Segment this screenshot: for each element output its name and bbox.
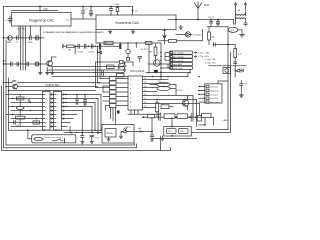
left bus line3	[8, 78, 10, 130]
netlabel box row1	[170, 51, 193, 54]
node y132.6	[82, 132, 84, 134]
ground crystal	[239, 35, 244, 37]
DD2 left pins	[199, 87, 205, 103]
connector box XS1	[43, 92, 51, 131]
chain capacitor Cx2	[191, 113, 193, 121]
arrows out XS2	[63, 94, 65, 119]
connector box XS2	[54, 92, 62, 131]
small box mid y62	[120, 60, 124, 63]
capacitor decoupling MCU	[123, 63, 126, 71]
cap hang a	[75, 95, 78, 105]
DD2 top wire	[218, 81, 228, 84]
wire mid verticals	[95, 30, 97, 44]
transistor VT4	[182, 100, 188, 106]
capacitor C12 inline	[214, 43, 216, 46]
ground quartz b	[119, 132, 122, 139]
node amp top	[132, 10, 134, 12]
svg-text:+12 В: +12 В	[176, 90, 182, 92]
node decap	[124, 62, 126, 64]
box G outer	[102, 125, 134, 144]
long row y86.5	[6, 86, 98, 88]
wire row y64 right	[148, 63, 161, 65]
switch SA2	[53, 139, 63, 141]
pin row arrows XS1-XS2	[51, 94, 52, 127]
node top bus junction x40	[39, 6, 41, 8]
svg-text:конт. АКБ: конт. АКБ	[173, 63, 183, 66]
compute box	[32, 135, 76, 143]
capacitor C6	[209, 20, 212, 27]
inner frame right P2	[191, 52, 230, 133]
bar in compute box	[64, 139, 66, 142]
ground under DA2	[109, 30, 112, 34]
svg-text:C4R2: C4R2	[27, 42, 33, 44]
ladder in wires left	[96, 79, 110, 106]
ground polarized cap	[81, 142, 84, 144]
svg-text:инд. заряд: инд. заряд	[173, 60, 184, 62]
wire crystal row	[207, 26, 228, 28]
wire x149 drop	[148, 44, 150, 72]
transformer T1 arrows	[235, 3, 247, 5]
ground mid bottom	[161, 136, 164, 141]
node rows left	[3, 82, 5, 84]
pin ticks XS2 inner	[54, 95, 56, 127]
node x161 upper dots	[160, 52, 162, 54]
pin numbers XS2	[57, 94, 58, 128]
bottom chain wire	[142, 117, 214, 125]
svg-text:к АКБ: к АКБ	[222, 119, 228, 122]
wire row1	[4, 37, 45, 39]
svg-text:Расчетная часть Т: Расчетная часть Т	[45, 137, 64, 139]
node antenna	[197, 19, 199, 21]
wire VT4	[187, 96, 189, 111]
transformer T1 right lead	[245, 5, 247, 15]
resistor R1 mid	[67, 45, 74, 48]
dash-dot divider	[209, 65, 247, 67]
svg-text:Усилитель DA2: Усилитель DA2	[115, 21, 139, 25]
svg-text:упр. прием: упр. прием	[173, 57, 184, 59]
netlabel box row3	[170, 59, 193, 62]
nodes DD3 left	[171, 126, 173, 128]
capacitor C16 right	[240, 81, 243, 96]
netlabel box row4	[170, 62, 193, 65]
wire bus row B	[47, 69, 124, 71]
transformer T2 oval b	[157, 86, 170, 90]
ground row2 c	[51, 67, 54, 75]
LED HL1	[121, 130, 128, 133]
svg-text:0,7 В; 7,4В: 0,7 В; 7,4В	[198, 52, 209, 54]
wire y44.5 right	[228, 44, 235, 46]
diode VD4	[235, 69, 243, 72]
svg-text:0,5 дБ; 7,4В: 0,5 дБ; 7,4В	[205, 59, 216, 61]
node bus dots	[95, 72, 97, 74]
svg-text:0,7 В; 7кГц: 0,7 В; 7кГц	[198, 56, 210, 58]
capacitor mid a	[78, 44, 79, 48]
resistor small under C17	[126, 58, 129, 61]
chain resistor Rx1	[148, 114, 155, 118]
resistor on row 122	[33, 121, 40, 124]
svg-text:C8 R12: C8 R12	[141, 49, 149, 51]
pin ticks XS1 inner	[43, 95, 45, 127]
node mid a	[75, 46, 77, 48]
svg-text:7: 7	[46, 118, 47, 120]
wire right winding down	[244, 19, 247, 26]
left rows into XS1	[6, 95, 43, 127]
svg-text:3: 3	[57, 102, 58, 104]
svg-text:C8 R4: C8 R4	[77, 52, 84, 54]
ground DA2 b	[131, 30, 134, 34]
wire mid vertical x75	[74, 46, 76, 54]
resistor R2 on top bus	[117, 7, 119, 16]
node C4	[110, 6, 112, 8]
wire row2	[4, 63, 48, 65]
DD3 sub element b	[179, 129, 189, 134]
svg-text:1: 1	[57, 94, 58, 96]
wire second rail	[12, 10, 59, 12]
wire DA1 to DA2	[71, 18, 96, 20]
transformer T1 winding b	[236, 18, 246, 19]
wire DA2 out dashed	[168, 19, 176, 21]
long row y82.5	[4, 82, 101, 84]
wire lower link	[152, 138, 197, 140]
wire x152 vertical	[151, 117, 153, 135]
box G inner quartz	[105, 129, 116, 138]
DD2 pin square 4	[206, 97, 209, 99]
svg-text:Модулятор DA1: Модулятор DA1	[29, 19, 54, 23]
wire x40 down	[39, 38, 41, 73]
node R2	[117, 6, 119, 8]
bar cap dark	[154, 70, 158, 73]
capacitor C5a row1	[30, 36, 32, 40]
resistor above ladder	[117, 74, 125, 77]
node C6	[210, 19, 212, 21]
svg-text:прием/пд: прием/пд	[210, 90, 219, 92]
MCU DD1 box	[128, 76, 143, 110]
node C3 top	[90, 6, 92, 8]
capacitor C15 mid	[99, 44, 100, 49]
capacitor mid c	[92, 44, 93, 48]
resistor on row A	[107, 65, 115, 68]
wire under MCU	[128, 110, 161, 114]
capacitor C2 plates	[81, 11, 84, 13]
compute oval resistor	[34, 138, 43, 141]
node d205	[204, 124, 206, 126]
ground zener	[90, 141, 93, 143]
wire x70 drop	[69, 127, 71, 133]
ground quartz a	[107, 137, 110, 141]
stack wires	[19, 95, 21, 127]
svg-text:упр. перед.: упр. перед.	[173, 53, 184, 55]
wire T2	[150, 85, 176, 96]
svg-text:4,7к: 4,7к	[238, 54, 242, 56]
optocoupler U2	[223, 68, 231, 74]
node DA2 out	[175, 19, 177, 21]
svg-text:вых. НЧ: вых. НЧ	[17, 28, 25, 30]
arrow into G	[97, 132, 99, 133]
svg-text:C6 C7: C6 C7	[208, 17, 215, 19]
zener VD6	[90, 135, 94, 141]
electrolytic cap C17	[126, 49, 131, 54]
svg-text:2: 2	[46, 98, 47, 100]
polarized cap C14 row2	[35, 62, 37, 66]
wire rows to netlabels	[161, 53, 170, 68]
svg-text:6: 6	[57, 114, 58, 116]
resistor R7 mid box	[104, 41, 113, 44]
stub DA1 bottom x19	[18, 26, 20, 36]
stack resistor Ra	[16, 97, 24, 100]
speaker BA1	[185, 32, 190, 37]
capacitor C18	[138, 57, 142, 63]
node out XS2 dots	[65, 94, 66, 95]
resistor box on y43 b	[146, 41, 153, 44]
svg-text:1: 1	[46, 94, 47, 96]
transformer T1 left lead	[235, 5, 237, 15]
resistor R6v vertical mid	[155, 44, 157, 47]
svg-text:Кв.ген: Кв.ген	[106, 133, 113, 135]
crystal ZQ1 oval	[228, 27, 238, 32]
wire x136 down	[135, 43, 137, 48]
resistor Rv dd2	[197, 115, 201, 121]
ground C16	[239, 95, 243, 97]
node row2 x40	[39, 63, 41, 65]
svg-text:M1: M1	[13, 79, 17, 83]
DD2 pin square 2	[206, 89, 209, 91]
svg-text:тон1 (1к): тон1 (1к)	[210, 94, 218, 96]
wire top bus	[4, 6, 133, 8]
MCU right pins	[143, 80, 200, 108]
capacitor C1 row1	[17, 36, 19, 40]
svg-text:тон2 (2к): тон2 (2к)	[210, 98, 218, 100]
DD3 sub element a	[167, 129, 177, 134]
rows out XS2	[62, 95, 102, 127]
antenna WA1	[194, 2, 202, 20]
DD2 pin square 3	[206, 93, 209, 95]
tantalum cap filled	[117, 111, 120, 114]
node y43 x120	[120, 42, 122, 44]
polarized cap x164	[163, 29, 167, 44]
node row1 x40	[39, 37, 41, 39]
pin numbers XS1	[46, 94, 47, 128]
diode VD1 small	[98, 51, 102, 53]
vertical drops to bottom right	[193, 96, 205, 127]
wire ladder tails	[111, 108, 116, 125]
capacitor cluster mid	[102, 71, 104, 76]
node C16	[240, 94, 242, 96]
node C7	[217, 19, 219, 21]
node grid dots a	[12, 98, 13, 99]
svg-text:WA1: WA1	[204, 3, 210, 7]
node mid c	[95, 46, 97, 48]
svg-text:общ. пров.: общ. пров.	[173, 68, 184, 70]
node verticals crossings	[20, 37, 21, 38]
capacitor C3 plates	[89, 11, 92, 13]
svg-text:8: 8	[57, 122, 58, 124]
chain resistor Rx2	[164, 114, 175, 119]
svg-text:5: 5	[57, 110, 58, 112]
DD2 pin nodes	[199, 86, 201, 88]
svg-text:2: 2	[57, 98, 58, 100]
wire right col down	[228, 45, 235, 130]
node x152	[151, 131, 153, 133]
stack oval Da	[16, 106, 24, 109]
node cap hang	[76, 94, 77, 95]
stack resistor Rb	[16, 116, 25, 119]
wire transformer bottom	[234, 16, 236, 25]
microphone BM1	[8, 36, 13, 41]
capacitor on row A	[118, 65, 120, 69]
wire into compute box	[28, 130, 32, 139]
node C17 top	[127, 42, 129, 44]
svg-text:BM1: BM1	[7, 42, 12, 44]
wire drop to amp box	[132, 7, 134, 16]
svg-text:4: 4	[57, 106, 58, 108]
wire x228 down	[227, 27, 229, 45]
resistor R9 vertical	[234, 45, 236, 49]
wire mid y62	[96, 62, 133, 66]
svg-text:C4 R2: C4 R2	[113, 4, 120, 6]
wire x160 down	[160, 136, 162, 151]
resistor Rh horizontal	[161, 105, 169, 109]
ground C3	[89, 14, 92, 16]
capacitor C9a row2	[27, 62, 29, 66]
node y43 x136	[136, 42, 138, 44]
capacitor C2 stub	[82, 7, 84, 20]
chain resistor Rx3	[177, 114, 188, 119]
wire G right exit	[128, 131, 152, 133]
transistor VT1	[47, 61, 53, 67]
wire bus row D	[52, 73, 188, 77]
DD2 pin square 5	[206, 101, 209, 103]
polarized cap left edge	[8, 16, 12, 23]
bundle verticals up	[96, 43, 110, 110]
left bus line2	[6, 40, 135, 145]
svg-text:9: 9	[46, 126, 47, 128]
wire mid row y46.3	[64, 45, 121, 47]
ground VD4	[242, 69, 243, 73]
wire speaker	[176, 34, 192, 36]
svg-text:C9 R6: C9 R6	[88, 52, 95, 54]
svg-text:9: 9	[57, 126, 58, 128]
ground row2 a	[39, 73, 42, 75]
node row2 left	[3, 63, 5, 65]
box modulator DA1	[12, 13, 72, 27]
DD2 pin square 1	[206, 85, 209, 87]
wire verticals box A to rows	[21, 26, 26, 70]
ladder out wires right	[116, 79, 128, 106]
arrow G exit	[140, 131, 142, 132]
netlabel pin squares	[170, 52, 172, 54]
capacitor C13	[234, 62, 237, 68]
node C2 top	[82, 6, 84, 8]
battery plate mid row	[62, 45, 64, 48]
svg-text:телефон: телефон	[193, 34, 201, 37]
svg-text:общ. пров.: общ. пров.	[210, 102, 220, 104]
node row A x122	[122, 66, 124, 68]
capacitor C7	[216, 20, 219, 26]
wire row y130	[9, 129, 102, 131]
wire row y44.5	[213, 44, 228, 46]
resistor R8 vertical	[208, 27, 210, 32]
inner frame right P1	[197, 129, 229, 131]
resistor box on y40.8	[169, 40, 177, 43]
arrow annots right of netlabels	[195, 52, 197, 57]
svg-text:7: 7	[57, 118, 58, 120]
left bus line4	[2, 86, 171, 151]
transistor VT2	[13, 84, 18, 89]
svg-text:юл В: юл В	[95, 138, 100, 140]
netlabel box row2	[170, 55, 193, 58]
chain capacitor Cx1	[159, 113, 161, 120]
svg-text:ATtiny2313: ATtiny2313	[130, 69, 145, 73]
svg-text:5: 5	[46, 110, 47, 112]
LED arrows	[124, 128, 127, 130]
transformer T1 winding a	[236, 14, 246, 16]
capacitor stack bottom	[14, 121, 16, 125]
wire top mid rail y43	[96, 42, 161, 44]
ground above speaker	[179, 26, 183, 30]
capacitor mid b	[85, 44, 86, 48]
wire VT1 top	[52, 57, 57, 61]
node x228	[227, 44, 229, 46]
pin rows XS1-XS2	[50, 95, 54, 127]
svg-text:4: 4	[46, 106, 47, 108]
bundle verticals down	[82, 95, 101, 134]
node column x161	[160, 63, 162, 65]
box DD3 bottom	[164, 127, 192, 137]
node mid b	[88, 46, 90, 48]
svg-text:установка частоты кварцевого г: установка частоты кварцевого генератора …	[43, 31, 104, 34]
capacitor C4 on top bus	[109, 7, 112, 16]
wire column x161	[160, 43, 162, 80]
wire bus row A	[52, 66, 124, 68]
transistor VT5m	[154, 60, 160, 66]
wire left bus	[4, 7, 137, 148]
wire bus row C	[47, 69, 190, 72]
transformer T2 oval a	[157, 82, 170, 86]
svg-text:вкл/выкл: вкл/выкл	[210, 87, 219, 89]
ground row2 b	[46, 68, 49, 75]
resistor R7v vertical	[156, 99, 158, 103]
chain nodes	[175, 116, 177, 118]
wire y132.6	[64, 132, 102, 134]
svg-text:0,7 дБ; 7кГц: 0,7 дБ; 7кГц	[205, 62, 216, 64]
polarized cap C6a row1	[34, 36, 36, 40]
wire crystal right	[238, 30, 242, 35]
ground C17b	[150, 139, 153, 141]
long row y90.5	[9, 90, 96, 92]
node rail junction x40	[39, 10, 41, 12]
node row1 left	[3, 37, 5, 39]
node y130	[27, 129, 29, 131]
capacitor C8a row2	[17, 62, 19, 66]
capacitor C17b bottom	[150, 135, 153, 139]
svg-text:3: 3	[46, 102, 47, 104]
cap hang b	[83, 95, 86, 106]
node left cap	[9, 20, 11, 22]
IC DD2 box	[205, 84, 222, 103]
box amplifier DA2	[96, 15, 176, 30]
netlabel box row5	[170, 66, 193, 69]
capacitor C7a row2	[11, 62, 13, 66]
capacitor C3 stub	[90, 7, 92, 15]
polarized cap bottom	[81, 133, 84, 142]
capacitor C16 mid	[120, 43, 121, 49]
chain resistor Rx4	[202, 113, 212, 117]
ladder resistor network RN1	[110, 77, 117, 81]
svg-text:6: 6	[46, 114, 47, 116]
wire DA2 out	[176, 19, 234, 21]
wire stub x40	[39, 7, 41, 11]
node y43 x106	[105, 42, 107, 44]
